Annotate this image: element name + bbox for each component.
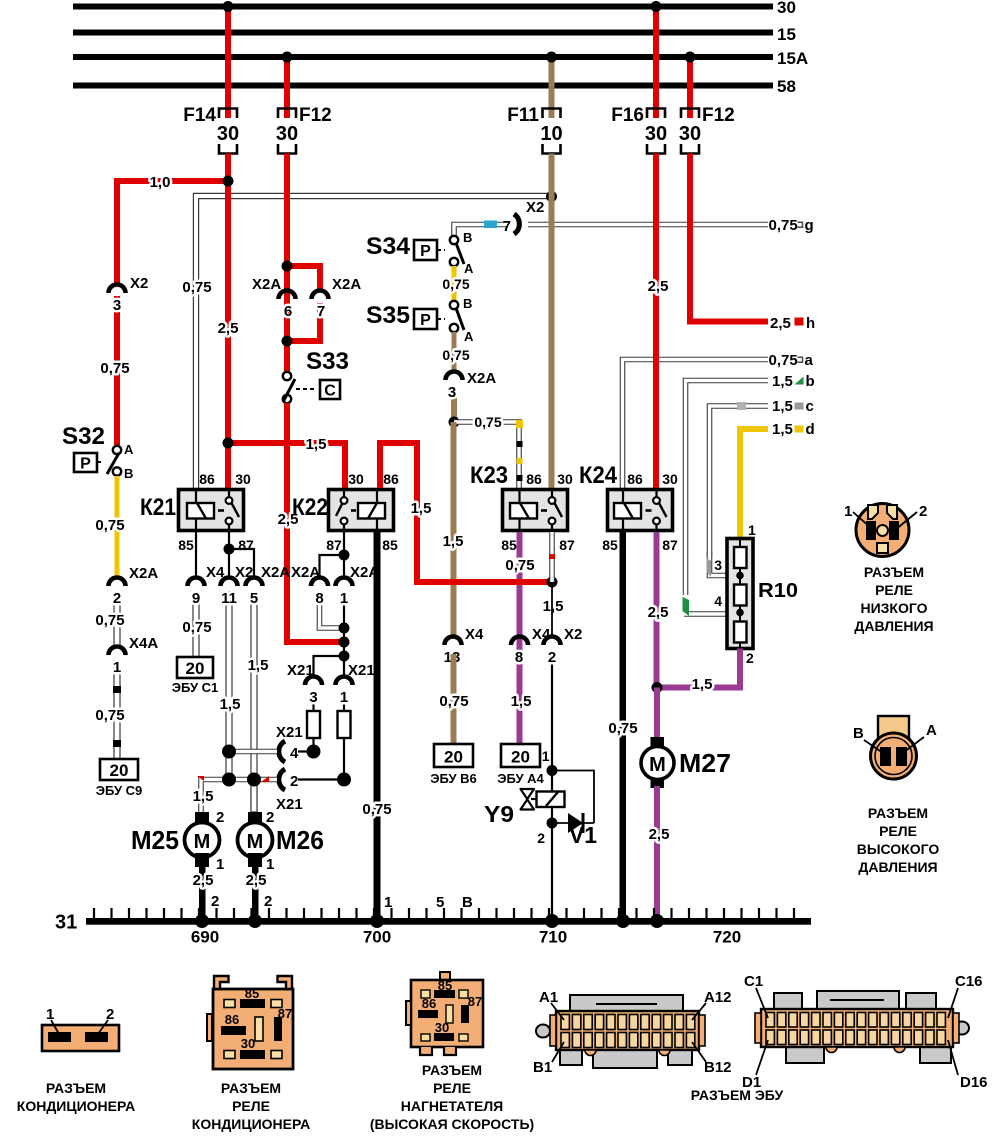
fuse F11 — [507, 105, 562, 154]
node resistor tie — [337, 773, 351, 787]
svg-text:7: 7 — [503, 218, 511, 235]
svg-text:1,5: 1,5 — [248, 657, 269, 674]
svg-text:87: 87 — [559, 537, 575, 553]
node fan splice 1 — [339, 623, 350, 634]
wire F16 output red down to K24 pin 30 — [653, 154, 659, 489]
wire K22-86 loop red to K23-87 node — [380, 443, 552, 582]
connector X4 pin 13 — [444, 626, 484, 666]
svg-text:2: 2 — [537, 830, 545, 846]
svg-text:P: P — [420, 243, 431, 260]
connector mark c — [795, 403, 804, 410]
node bus15A/F12-left — [282, 52, 293, 63]
svg-text:8: 8 — [315, 590, 323, 607]
svg-text:3: 3 — [309, 689, 317, 706]
svg-text:86: 86 — [225, 1012, 239, 1027]
wire underlay row a white — [623, 360, 769, 489]
diode bypass loop — [552, 771, 594, 824]
ECU box A4 — [497, 744, 544, 786]
svg-text:15: 15 — [777, 25, 796, 44]
switch S32 — [62, 423, 134, 481]
svg-text:A1: A1 — [539, 989, 558, 1006]
svg-text:0,75: 0,75 — [769, 217, 798, 234]
connector X2A pin 5 — [246, 564, 291, 607]
svg-text:710: 710 — [539, 928, 567, 947]
svg-text:30: 30 — [217, 123, 239, 145]
svg-text:30: 30 — [276, 123, 298, 145]
node bus15A/F11 — [546, 52, 557, 63]
node M25 wire / X2-11 — [222, 773, 236, 787]
svg-text:1: 1 — [748, 522, 756, 538]
svg-text:1: 1 — [266, 856, 274, 873]
connector mark a — [798, 357, 803, 362]
caption high pressure connector — [857, 805, 940, 875]
svg-text:30: 30 — [235, 471, 251, 487]
node fan splice 2 (red feed) — [339, 637, 350, 648]
svg-text:ЭБУ С9: ЭБУ С9 — [96, 783, 143, 798]
svg-text:ДАВЛЕНИЯ: ДАВЛЕНИЯ — [854, 618, 933, 634]
wire K23-85 purple to ECU A4 — [517, 532, 523, 744]
svg-text:РЕЛЕ: РЕЛЕ — [232, 1098, 270, 1114]
svg-text:C16: C16 — [955, 973, 983, 990]
svg-text:5: 5 — [250, 590, 258, 607]
wire F11 feed from bus 15A — [549, 57, 555, 118]
ECU connector A/B pictogram — [533, 989, 732, 1076]
bus bar 15 — [73, 25, 796, 44]
svg-text:20: 20 — [444, 748, 463, 767]
svg-text:7: 7 — [317, 303, 325, 320]
svg-text:86: 86 — [526, 471, 542, 487]
svg-text:X2: X2 — [526, 199, 544, 216]
svg-text:НИЗКОГО: НИЗКОГО — [860, 600, 927, 616]
node F11/white-wire junction — [546, 191, 557, 202]
node Y9 top — [547, 765, 558, 776]
svg-text:1,5: 1,5 — [306, 436, 327, 453]
wire F12-right output red to row h — [690, 154, 768, 322]
svg-text:20: 20 — [110, 761, 129, 780]
node fan splice 3 — [339, 651, 350, 662]
solenoid valve Y9 — [484, 789, 565, 827]
wire X2A-5 white down — [251, 592, 257, 815]
svg-text:1: 1 — [542, 748, 550, 764]
svg-text:20: 20 — [186, 659, 205, 678]
svg-text:87: 87 — [662, 537, 678, 553]
svg-text:X2A: X2A — [261, 564, 290, 581]
svg-text:РАЗЪЕМ: РАЗЪЕМ — [422, 1062, 482, 1078]
wire underlay row c white — [710, 406, 769, 556]
svg-text:2,5: 2,5 — [218, 320, 239, 337]
svg-text:3: 3 — [448, 384, 456, 401]
node bus15A/F12-right — [685, 52, 696, 63]
svg-text:0,75: 0,75 — [505, 557, 534, 574]
connector X2A pin 2 — [109, 565, 159, 607]
wire X4-9 white to ECU C1 — [193, 592, 199, 657]
svg-text:S35: S35 — [366, 302, 410, 329]
svg-text:0,75: 0,75 — [608, 720, 637, 737]
svg-text:X4A: X4A — [129, 635, 158, 652]
svg-text:(ВЫСОКАЯ СКОРОСТЬ): (ВЫСОКАЯ СКОРОСТЬ) — [370, 1116, 534, 1132]
svg-text:85: 85 — [245, 986, 259, 1001]
svg-text:B12: B12 — [704, 1059, 732, 1076]
svg-text:P: P — [420, 312, 431, 329]
bus bar 15A — [73, 49, 808, 68]
svg-text:2: 2 — [266, 809, 274, 826]
connector X2A pin 7 — [312, 276, 362, 320]
svg-text:S32: S32 — [62, 423, 105, 450]
svg-text:P: P — [80, 456, 91, 473]
wire branch to X2A-8 — [320, 555, 345, 578]
wire underlay row g white — [528, 222, 768, 228]
svg-text:F11: F11 — [507, 105, 539, 126]
svg-text:30: 30 — [435, 1020, 449, 1035]
resistor block R10 — [714, 522, 798, 666]
svg-text:X2A: X2A — [467, 370, 496, 387]
svg-text:2: 2 — [746, 650, 754, 666]
wire X2A-2 white — [114, 592, 120, 647]
node F14/1,0 branch — [223, 176, 234, 187]
svg-text:A: A — [464, 329, 474, 344]
switch S35 — [366, 296, 474, 344]
wire S33 output red down and to fan node — [287, 403, 345, 642]
svg-text:R10: R10 — [758, 580, 798, 602]
red colour tick left — [197, 776, 204, 781]
svg-text:30: 30 — [557, 471, 573, 487]
svg-text:b: b — [806, 373, 815, 390]
svg-text:2,5: 2,5 — [246, 872, 267, 889]
red colour tick on K23-87 wire — [549, 554, 555, 559]
connector mark g — [798, 222, 803, 227]
ECU box B6 — [430, 744, 477, 786]
svg-text:М26: М26 — [276, 825, 324, 855]
node bus31/K22-85 — [370, 914, 384, 928]
connector mark d — [795, 426, 804, 433]
relay K24 — [579, 462, 678, 553]
svg-text:0,75: 0,75 — [182, 279, 211, 296]
svg-text:30: 30 — [777, 0, 796, 17]
A/C connector pictogram — [42, 1006, 119, 1051]
svg-text:К22: К22 — [292, 494, 328, 521]
svg-text:0,75: 0,75 — [769, 352, 798, 369]
svg-text:М27: М27 — [679, 748, 731, 778]
svg-text:1,5: 1,5 — [772, 398, 793, 415]
svg-text:0,75: 0,75 — [474, 414, 501, 430]
connector mark on wire c end — [707, 558, 712, 577]
svg-text:4: 4 — [714, 593, 722, 609]
wire X2-3 to S32-A red — [114, 296, 120, 445]
svg-text:М: М — [247, 831, 264, 853]
wire branch to X21-1 — [343, 656, 345, 677]
svg-text:1: 1 — [844, 503, 852, 520]
svg-text:1: 1 — [46, 1006, 54, 1023]
fuse F12 (left) — [276, 105, 332, 154]
svg-text:В: В — [853, 725, 864, 742]
wire underlay row d yellow — [740, 429, 768, 538]
svg-text:87: 87 — [468, 994, 482, 1009]
connector X21 pin 2 — [276, 769, 303, 813]
svg-text:2: 2 — [113, 590, 121, 607]
svg-text:1,5: 1,5 — [443, 533, 464, 550]
node K22-87 split — [339, 550, 350, 561]
connector X21 pin 1 — [336, 662, 375, 706]
svg-text:B: B — [463, 296, 472, 311]
svg-text:2,5: 2,5 — [648, 604, 669, 621]
svg-text:РАЗЪЕМ: РАЗЪЕМ — [221, 1080, 281, 1096]
svg-text:A: A — [124, 442, 134, 457]
svg-text:87: 87 — [238, 537, 254, 553]
svg-text:86: 86 — [422, 996, 436, 1011]
bus 31 tick marks — [94, 908, 794, 918]
wire S32-B yellow — [115, 476, 120, 578]
wire F12-left feed from bus 15A — [284, 57, 290, 118]
svg-text:РАЗЪЕМ: РАЗЪЕМ — [46, 1080, 106, 1096]
connector X2A pin 1 — [336, 564, 380, 607]
connector X21 pin 4 — [276, 724, 307, 762]
node F12-left branch to X2A-7 — [282, 261, 293, 272]
wire branch to X2A-1 — [343, 555, 345, 578]
wire X2-2 down to Y9 — [551, 652, 553, 922]
node bus31/M27 — [650, 914, 664, 928]
node bus31/K24-85 — [616, 914, 630, 928]
wire K21-87 thin down — [228, 532, 230, 549]
wire branch to X2-11 — [228, 549, 230, 578]
ECU box C1 — [172, 657, 219, 695]
svg-text:РЕЛЕ: РЕЛЕ — [875, 582, 913, 598]
svg-text:1: 1 — [340, 689, 348, 706]
node bus30/F14 — [223, 1, 234, 12]
svg-text:9: 9 — [192, 590, 200, 607]
wire K22-85 black heavy to bus 31 — [374, 532, 381, 922]
svg-text:C1: C1 — [744, 973, 763, 990]
svg-text:d: d — [806, 421, 815, 438]
wire 1,5 F14 to K22-30 red — [228, 443, 345, 488]
resistor fan R (right) — [338, 692, 351, 780]
fuse F14 — [183, 105, 239, 154]
svg-text:0,75: 0,75 — [95, 707, 124, 724]
connector X2A pin 8 — [291, 564, 328, 607]
wire branch to X21-3 — [314, 656, 345, 677]
svg-text:30: 30 — [679, 123, 701, 145]
wire S35-A to X2A-3 brown — [452, 332, 457, 372]
ground bus 31 — [55, 912, 811, 934]
svg-text:g: g — [805, 217, 814, 234]
svg-text:A12: A12 — [704, 989, 732, 1006]
svg-text:58: 58 — [777, 77, 796, 96]
wire M25 return to bus 31 — [199, 866, 206, 922]
svg-text:1,5: 1,5 — [772, 421, 793, 438]
svg-text:4: 4 — [290, 745, 299, 762]
svg-text:B: B — [124, 466, 133, 481]
red colour tick right — [261, 776, 269, 782]
connector X4A pin 1 — [109, 635, 159, 676]
svg-text:ЭБУ С1: ЭБУ С1 — [172, 680, 219, 695]
fuse F16 — [611, 105, 667, 154]
svg-text:1,0: 1,0 — [150, 174, 171, 191]
svg-text:2: 2 — [548, 649, 556, 666]
wire node to X2-2 thin — [551, 582, 553, 637]
svg-text:31: 31 — [55, 912, 77, 934]
wire F12-left main through X2A-6 — [284, 154, 290, 374]
svg-text:0,75: 0,75 — [362, 801, 391, 818]
svg-text:В: В — [462, 894, 473, 911]
relay K21 — [140, 471, 254, 553]
switch S33 — [283, 348, 349, 403]
wire X4-13 brown lower — [451, 654, 457, 744]
svg-text:2: 2 — [264, 893, 272, 910]
svg-text:0,75: 0,75 — [182, 619, 211, 636]
svg-text:М: М — [649, 754, 666, 776]
wire F12-right feed from bus 15A — [687, 57, 693, 118]
node X2-11/X21-4 — [222, 745, 236, 759]
svg-text:2: 2 — [211, 893, 219, 910]
high pressure relay connector pictogram — [853, 716, 937, 779]
wire X4A-1 to ECU C9 white dashed — [113, 661, 121, 759]
wire M25 feed white — [201, 780, 277, 813]
svg-text:30: 30 — [645, 123, 667, 145]
svg-text:2: 2 — [919, 503, 927, 520]
wire S32 branch vertical red — [114, 178, 120, 284]
svg-text:0,75: 0,75 — [95, 612, 124, 629]
svg-text:10: 10 — [540, 123, 562, 145]
node X21-4 tie — [307, 745, 321, 759]
svg-text:700: 700 — [363, 928, 391, 947]
wire X2-11 branch to X21-4 white — [229, 749, 277, 755]
node F14/1,5 branch — [223, 438, 234, 449]
svg-text:К23: К23 — [470, 462, 508, 489]
connector X2 pin 2 — [544, 626, 583, 666]
svg-text:2: 2 — [290, 773, 298, 790]
svg-text:15A: 15A — [777, 49, 808, 68]
svg-text:85: 85 — [382, 537, 398, 553]
wire R10-2 purple to M27 node — [658, 649, 740, 688]
svg-text:X2A: X2A — [332, 276, 361, 293]
svg-text:М25: М25 — [131, 825, 179, 855]
wire K21-85 thin to X4-9 — [195, 532, 197, 578]
relay K23 — [470, 462, 575, 553]
connector X21 pin 3 — [287, 662, 322, 706]
wire M26 feed white — [251, 780, 257, 813]
wire brown junction down to X4-13 — [451, 422, 457, 637]
wire X2A-7 return loop red — [287, 303, 320, 341]
wire S34-B to X2-7 white — [454, 225, 508, 241]
low pressure relay connector pictogram — [844, 503, 927, 557]
svg-text:РЕЛЕ: РЕЛЕ — [433, 1080, 471, 1096]
wire F16 feed from bus 30 — [653, 6, 659, 118]
svg-text:86: 86 — [383, 471, 399, 487]
blower relay connector pictogram — [406, 972, 483, 1055]
switch S34 — [366, 230, 474, 276]
svg-text:0,75: 0,75 — [100, 360, 129, 377]
motor M27 — [641, 737, 731, 788]
connector X4 pin 8 — [511, 626, 551, 666]
svg-text:85: 85 — [178, 537, 194, 553]
svg-text:A: A — [464, 261, 474, 276]
svg-text:F14: F14 — [183, 105, 216, 126]
svg-text:X4: X4 — [532, 626, 551, 643]
wire F14 feed from bus 30 — [225, 6, 231, 118]
svg-text:А: А — [926, 722, 937, 739]
motor M25 — [131, 809, 224, 873]
svg-text:X2A: X2A — [350, 564, 379, 581]
wire 1,0 horizontal to S32 branch — [114, 178, 228, 184]
wire underlay row b white — [686, 381, 769, 596]
svg-text:ЭБУ А4: ЭБУ А4 — [497, 771, 544, 786]
svg-text:F12: F12 — [299, 105, 332, 126]
svg-text:М: М — [194, 831, 211, 853]
svg-text:0,75: 0,75 — [442, 276, 469, 292]
node bus31/Y9 — [545, 914, 559, 928]
wire white/striped to K23-86 — [454, 420, 523, 488]
wire underlay white 0,75 F11-junction to K21-86 — [196, 196, 549, 488]
diode V1 — [557, 813, 597, 848]
connector X2 pin 7 — [503, 199, 545, 235]
svg-text:НАГНЕТАТЕЛЯ: НАГНЕТАТЕЛЯ — [401, 1098, 503, 1114]
connector X2A pin 3 — [446, 370, 497, 401]
svg-text:1: 1 — [113, 659, 121, 676]
svg-text:1: 1 — [216, 856, 224, 873]
svg-text:РЕЛЕ: РЕЛЕ — [879, 823, 917, 839]
node bus31/M26 — [248, 914, 262, 928]
fuse F12 (right) — [679, 105, 735, 154]
svg-text:690: 690 — [191, 928, 219, 947]
connector mark on wire c — [737, 402, 746, 410]
wire X21-2 link to resistor — [298, 778, 344, 780]
svg-text:1,5: 1,5 — [193, 788, 214, 805]
caption A/C relay connector — [192, 1080, 310, 1132]
wire X2A-3 brown down — [451, 386, 457, 424]
svg-text:3: 3 — [714, 557, 722, 573]
wire K24-85 black to bus 31 — [620, 532, 627, 922]
connector mark on wire b end — [683, 597, 690, 616]
node bus31/M25 — [195, 914, 209, 928]
wire M27 return purple to bus 31 — [654, 786, 660, 922]
wire c tail white to R10 pin 3 — [710, 552, 728, 576]
wire F11 output brown down to K23 pin 30 — [549, 154, 555, 489]
wire loop to X2A-7 red — [287, 266, 320, 291]
wire K24-87 purple down — [654, 532, 660, 688]
ECU connector C/D pictogram — [742, 973, 988, 1091]
caption low pressure connector — [854, 564, 933, 634]
svg-text:X21: X21 — [287, 662, 314, 679]
svg-text:X2A: X2A — [291, 564, 320, 581]
node X2A-3 branch — [449, 417, 460, 428]
svg-text:a: a — [805, 352, 814, 369]
svg-text:2: 2 — [216, 809, 224, 826]
svg-text:X2A: X2A — [129, 565, 158, 582]
svg-text:1,5: 1,5 — [772, 373, 793, 390]
svg-text:B: B — [463, 230, 472, 245]
svg-text:8: 8 — [515, 649, 523, 666]
svg-text:85: 85 — [501, 537, 517, 553]
svg-text:X2A: X2A — [252, 276, 281, 293]
connector X2 pin 3 — [109, 275, 149, 314]
svg-text:87: 87 — [326, 537, 342, 553]
svg-text:11: 11 — [221, 590, 237, 607]
svg-text:B1: B1 — [533, 1059, 552, 1076]
svg-text:X21: X21 — [276, 724, 303, 741]
node bus30/F16 — [651, 1, 662, 12]
svg-text:30: 30 — [241, 1036, 255, 1051]
svg-text:S33: S33 — [306, 348, 349, 375]
svg-text:РАЗЪЕМ: РАЗЪЕМ — [868, 805, 928, 821]
wire b tail white to R10 pin 4 — [684, 611, 727, 617]
svg-text:X2: X2 — [130, 275, 148, 292]
node Y9 bottom — [547, 818, 558, 829]
node M26 wire / X2A-5 — [247, 773, 261, 787]
svg-text:F12: F12 — [702, 105, 735, 126]
connector mark b — [795, 377, 804, 385]
wire X2A-8 white elbow — [320, 592, 342, 628]
caption A/C connector — [17, 1080, 135, 1114]
bus bar 30 — [73, 0, 796, 17]
